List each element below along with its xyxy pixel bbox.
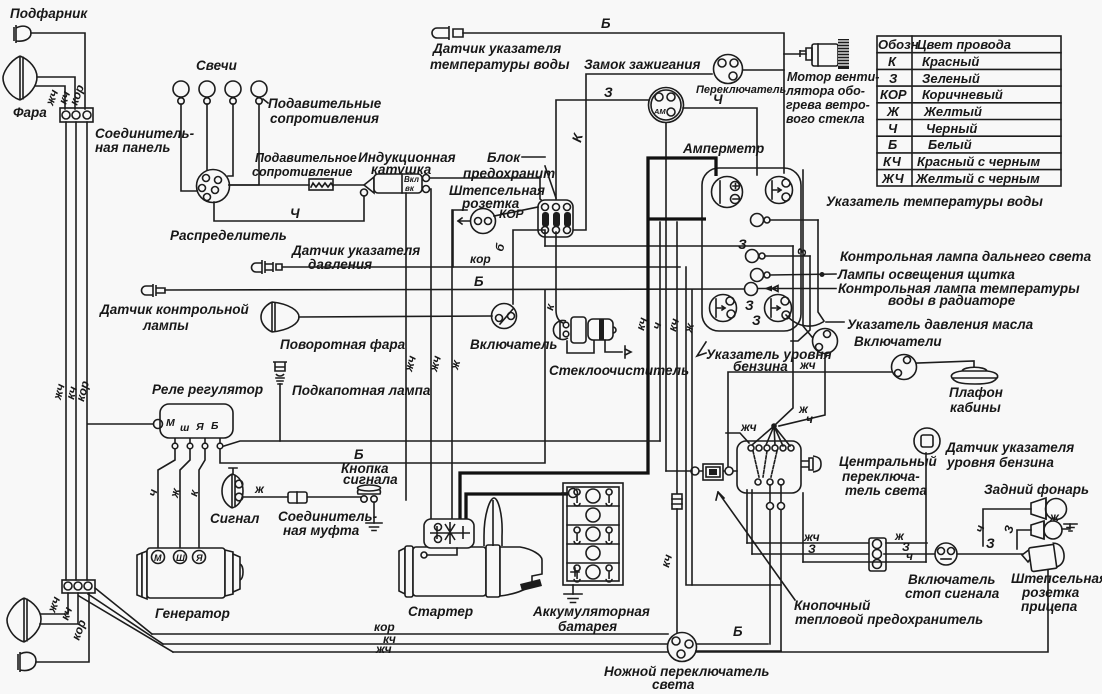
corridor vertical to connector З	[691, 290, 693, 585]
stop light switch (Включатель стоп сигнала)	[935, 543, 957, 565]
oil pressure label with leader	[786, 315, 823, 326]
bottom bus wire ЖЧ	[173, 570, 1048, 652]
left vertical wire bundle	[65, 122, 67, 580]
headlamp (Фара) bottom-left	[7, 598, 41, 642]
wire swivel lamp to switch	[299, 316, 492, 317]
svg-text:Подавительные: Подавительные	[268, 96, 382, 111]
svg-text:батарея: батарея	[558, 619, 617, 634]
svg-text:Включатель: Включатель	[908, 572, 995, 587]
bottom bus wire КЧ	[163, 643, 667, 645]
thick ammeter cable	[460, 158, 716, 519]
svg-text:ная панель: ная панель	[95, 140, 170, 155]
fuel sender wire down + central switch right wire	[925, 453, 927, 562]
parking lamp symbol top-left	[16, 25, 31, 43]
yellow wire Ж horn to coupling to horn button	[243, 496, 361, 498]
svg-text:Поворотная фара: Поворотная фара	[280, 337, 406, 352]
svg-text:К: К	[888, 54, 897, 69]
thick battery cable	[466, 494, 568, 519]
horn button ground	[373, 502, 375, 523]
panel lamp 2	[751, 269, 764, 282]
svg-text:ч: ч	[806, 412, 813, 426]
switch (Переключатель)	[714, 55, 743, 84]
svg-text:тепловой предохранитель: тепловой предохранитель	[795, 612, 983, 627]
svg-text:Желтый с черным: Желтый с черным	[915, 171, 1040, 186]
battery (Аккумуляторная батарея)	[563, 483, 623, 585]
svg-text:вк: вк	[405, 184, 415, 193]
svg-text:Мотор венти-: Мотор венти-	[787, 70, 879, 84]
svg-text:Ч: Ч	[290, 206, 300, 221]
connection panel (Соединительная панель) top	[60, 108, 93, 122]
svg-text:Амперметр: Амперметр	[682, 141, 764, 156]
svg-text:ж: ж	[254, 482, 265, 496]
svg-text:Подфарник: Подфарник	[10, 6, 88, 21]
svg-text:КОР: КОР	[880, 87, 907, 102]
svg-text:грева ветро-: грева ветро-	[786, 98, 870, 112]
vertical wire x452 socket area down	[451, 210, 453, 519]
oil pressure gauge	[765, 295, 792, 322]
bottom headlamp wires	[41, 593, 68, 614]
wire colour code table	[877, 36, 1061, 186]
starter (Стартер)	[399, 498, 542, 597]
svg-text:З: З	[889, 71, 898, 86]
svg-text:З: З	[986, 536, 995, 551]
svg-text:Лампы освещения щитка: Лампы освещения щитка	[837, 267, 1015, 282]
switch B	[892, 355, 917, 380]
coupling (Соединительная муфта)	[288, 492, 307, 503]
svg-text:З: З	[808, 542, 816, 556]
svg-text:температуры воды: температуры воды	[430, 57, 570, 72]
thermal fuse wire from corridor to switch	[666, 470, 737, 472]
connector block right	[869, 538, 886, 571]
svg-text:Фара: Фара	[13, 105, 47, 120]
svg-text:света: света	[652, 677, 695, 692]
battery ground	[572, 585, 574, 594]
trailer socket (Штепсельная розетка прицепа)	[1022, 542, 1066, 572]
long white wire Б across top	[463, 33, 784, 173]
svg-text:З: З	[752, 313, 761, 328]
svg-text:Штепсельная: Штепсельная	[1011, 571, 1102, 586]
ignition lock bottom wire down corridor	[665, 123, 667, 471]
foot dimmer switch (Ножной переключатель света)	[668, 633, 697, 662]
white wire Б from control lamp sender	[165, 289, 744, 290]
radiator temp warning lamp with arrow	[745, 283, 758, 296]
svg-text:Ч: Ч	[888, 121, 898, 136]
headlamp (Фара) top-left	[3, 56, 37, 100]
induction coil body	[364, 177, 374, 193]
svg-text:сопротивления: сопротивления	[270, 111, 379, 126]
svg-text:Включатели: Включатели	[854, 334, 942, 349]
svg-text:Б: Б	[474, 274, 484, 289]
wire socket left to КОР wire	[453, 210, 467, 267]
bottom parking lamp wire	[36, 593, 89, 662]
control lamp sender (Датчик контрольной лампы)	[142, 284, 165, 297]
distributor (Распределитель)	[197, 170, 230, 203]
green wire to trailer socket	[957, 549, 1032, 554]
Б wire from relay to the right	[220, 290, 545, 463]
svg-text:Указатель давления масла: Указатель давления масла	[847, 317, 1034, 332]
heater fan motor (Мотор вентилятора)	[800, 48, 812, 60]
fuel gauge	[710, 295, 737, 322]
underhood lamp wire down	[279, 384, 281, 441]
svg-text:жч: жч	[740, 420, 757, 434]
svg-text:Черный: Черный	[926, 121, 977, 136]
svg-text:ная муфта: ная муфта	[283, 523, 360, 538]
corridor vertical to connector Ж	[686, 267, 781, 585]
wire to label Контрольная лампа дальнего света	[770, 219, 818, 221]
svg-text:Я: Я	[195, 553, 203, 563]
plug wires to distributor	[181, 104, 197, 191]
bottom bus wire КОР	[152, 633, 668, 635]
svg-text:Красный с черным: Красный с черным	[917, 154, 1040, 169]
svg-text:ЖЧ: ЖЧ	[881, 171, 905, 186]
svg-text:воды в радиаторе: воды в радиаторе	[888, 293, 1016, 308]
long vertical wire from coil bottom terminal down to starter	[430, 189, 431, 519]
wire distributor to resistor	[229, 184, 309, 186]
svg-text:Я: Я	[195, 421, 204, 433]
wire fuse block down to switch (б)	[513, 230, 545, 304]
wires relay to generator	[158, 449, 175, 551]
svg-text:ш: ш	[180, 422, 190, 434]
svg-text:розетка: розетка	[1021, 585, 1080, 600]
svg-text:Плафон: Плафон	[949, 385, 1003, 400]
svg-text:кор: кор	[470, 252, 491, 266]
connection panel bottom	[62, 580, 95, 593]
wire parking lamp to vertical bus	[31, 33, 85, 109]
svg-text:З: З	[604, 85, 613, 100]
svg-text:Б: Б	[733, 624, 743, 639]
right side verticals from panel area	[545, 245, 793, 247]
vertical wire from coil box down	[405, 193, 407, 500]
ЖЧ wire to switch B	[728, 372, 892, 470]
svg-text:Подкапотная лампа: Подкапотная лампа	[292, 383, 431, 398]
push thermal fuse label with long leader	[716, 492, 795, 600]
svg-text:уровня бензина: уровня бензина	[946, 455, 1054, 470]
svg-text:лятора обо-: лятора обо-	[785, 84, 865, 98]
svg-text:жч: жч	[799, 358, 816, 372]
wire relay left to bundle	[88, 423, 153, 425]
svg-text:Б: Б	[354, 447, 364, 462]
svg-text:сопротивление: сопротивление	[252, 165, 353, 179]
fan of wires into switch top	[752, 426, 790, 446]
svg-text:Подавительное: Подавительное	[255, 151, 357, 165]
svg-text:Аккумуляторная: Аккумуляторная	[532, 604, 650, 619]
diagonal feeders from panel to bottom bus	[95, 588, 152, 634]
svg-text:Б: Б	[211, 420, 219, 432]
svg-text:Свечи: Свечи	[196, 58, 238, 73]
svg-text:Указатель температуры воды: Указатель температуры воды	[826, 194, 1043, 209]
svg-text:Цвет провода: Цвет провода	[917, 37, 1011, 52]
svg-text:Стартер: Стартер	[408, 604, 473, 619]
svg-text:Обозн: Обозн	[878, 37, 919, 52]
wire coil top terminal to fuse block	[430, 178, 545, 203]
svg-text:Контрольная лампа дальнего све: Контрольная лампа дальнего света	[840, 249, 1092, 264]
red wire К vertical to wiper	[556, 232, 563, 323]
svg-text:М: М	[154, 553, 162, 563]
brown wire КОР from pressure sender	[283, 266, 680, 268]
svg-text:Датчик контрольной: Датчик контрольной	[99, 302, 250, 317]
svg-text:Стеклоочиститель: Стеклоочиститель	[549, 363, 689, 378]
instrument panel rounded rect	[702, 168, 801, 331]
spark plug 4	[251, 81, 267, 97]
underhood lamp (Подкапотная лампа)	[273, 362, 287, 376]
switch (Включатель)	[492, 304, 517, 329]
black wire Ч from distributor bottom to coil	[214, 196, 364, 221]
svg-text:Кнопочный: Кнопочный	[794, 598, 871, 613]
svg-text:Б: Б	[601, 16, 611, 31]
pressure sender (Датчик указателя давления)	[252, 260, 283, 274]
red wire К vertical to fuse block	[571, 74, 712, 230]
svg-text:Желтый: Желтый	[923, 104, 982, 119]
svg-text:Зеленый: Зеленый	[922, 71, 980, 86]
svg-text:давления: давления	[308, 257, 372, 272]
svg-text:ж: ж	[1049, 510, 1060, 524]
spark plug 3	[225, 81, 241, 97]
wire switch B to cab lamp	[917, 361, 974, 368]
svg-text:Соединитель-: Соединитель-	[95, 126, 195, 141]
water temp sender (Датчик указателя температуры воды)	[432, 26, 463, 40]
svg-text:Белый: Белый	[928, 137, 972, 152]
parking lamp bottom-left	[18, 652, 36, 672]
svg-text:З: З	[745, 298, 754, 313]
svg-text:кабины: кабины	[950, 400, 1001, 415]
rear lamp 2 ground	[1062, 524, 1070, 529]
svg-text:жч: жч	[375, 642, 392, 656]
svg-text:Соединитель-: Соединитель-	[278, 509, 378, 524]
central light switch (Центральный переключатель света)	[737, 441, 801, 493]
svg-text:прицепа: прицепа	[1021, 599, 1078, 614]
svg-text:Датчик указателя: Датчик указателя	[432, 41, 561, 56]
central switch bottom terminal wires	[746, 490, 748, 543]
КЧ vertical wire with fuse to foot switch	[676, 222, 678, 494]
svg-text:Датчик указателя: Датчик указателя	[291, 243, 420, 258]
switch knob	[801, 456, 821, 472]
water temp gauge	[766, 177, 793, 204]
svg-text:Ш: Ш	[176, 553, 185, 563]
wires connector to stop switch and trailer	[886, 542, 927, 544]
headlamp wires to panel	[37, 77, 75, 109]
wire socket to fuse block	[494, 207, 538, 216]
wire switch to heater motor	[784, 53, 806, 55]
underhood lamp wire vertical	[659, 222, 661, 441]
spark plug 1	[173, 81, 189, 97]
wiper motor (Стеклоочиститель)	[553, 320, 568, 339]
ammeter	[712, 177, 743, 208]
switch A	[813, 329, 838, 354]
svg-text:АМ: АМ	[653, 107, 666, 116]
svg-text:Б: Б	[888, 137, 897, 152]
svg-text:Генератор: Генератор	[155, 606, 230, 621]
svg-text:Замок зажигания: Замок зажигания	[584, 57, 701, 72]
ЖЧ label and wire top-left of switch	[726, 433, 749, 443]
svg-text:стоп сигнала: стоп сигнала	[905, 586, 1000, 601]
svg-text:Реле регулятор: Реле регулятор	[152, 382, 263, 397]
svg-text:М: М	[166, 417, 175, 429]
black wire Ч from ignition to panel	[683, 108, 757, 175]
svg-text:переключа-: переключа-	[842, 469, 920, 484]
rear lamp wires	[983, 509, 1031, 546]
wiper ground	[567, 341, 594, 353]
svg-text:предохранит: предохранит	[463, 166, 555, 181]
horn (Сигнал)	[222, 474, 243, 508]
cab lamp (Плафон кабины)	[951, 367, 997, 384]
Б wire foot switch to central switch terminals	[697, 643, 768, 645]
svg-text:тель света: тель света	[845, 483, 928, 498]
fuel level sender (Датчик указателя уровня бензина)	[914, 428, 940, 454]
panel lights lamp	[746, 250, 759, 263]
svg-text:Датчик указателя: Датчик указателя	[945, 440, 1074, 455]
svg-text:ч: ч	[906, 549, 913, 563]
resistor box with zigzag	[309, 179, 333, 190]
svg-text:З: З	[738, 237, 747, 252]
svg-text:лампы: лампы	[142, 318, 189, 333]
svg-text:Распределитель: Распределитель	[170, 228, 287, 243]
high beam indicator lamp	[751, 214, 764, 227]
svg-text:Центральный: Центральный	[839, 454, 938, 469]
spark plug 2	[199, 81, 215, 97]
green wire З to ignition lock	[556, 100, 648, 203]
svg-text:Переключатель: Переключатель	[696, 84, 786, 96]
svg-text:Коричневый: Коричневый	[922, 87, 1003, 102]
svg-text:Сигнал: Сигнал	[210, 511, 260, 526]
svg-text:Блок: Блок	[487, 150, 521, 165]
wire resistor to coil	[333, 184, 364, 186]
svg-text:Вкл: Вкл	[404, 175, 419, 184]
svg-text:КЧ: КЧ	[883, 154, 902, 169]
svg-text:Задний фонарь: Задний фонарь	[984, 482, 1089, 497]
wire switch A down to central switch	[779, 354, 825, 426]
swivel lamp (Поворотная фара)	[261, 302, 299, 332]
svg-text:Ж: Ж	[886, 104, 900, 119]
svg-text:Красный: Красный	[922, 54, 979, 69]
svg-text:вого стекла: вого стекла	[786, 112, 865, 126]
generator (Генератор)	[137, 548, 243, 599]
